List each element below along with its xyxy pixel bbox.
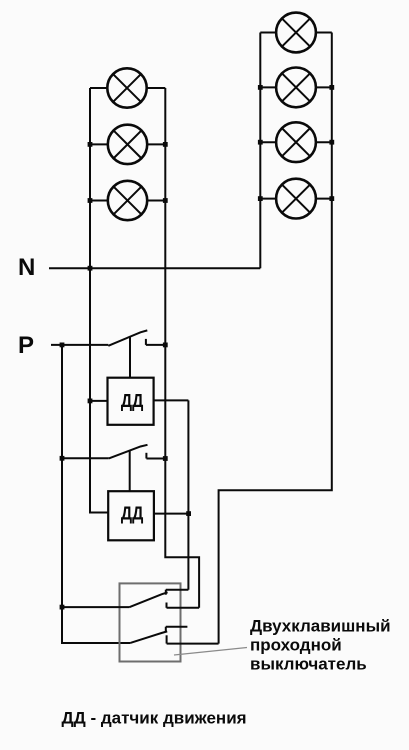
wire EL3 right stub [147,200,165,202]
wire right-group left rail (to N) [259,33,261,269]
wire EL4 left stub [260,32,276,34]
wire SA2 to sensor U2 [129,451,131,492]
junction dot right group right rail EL5 [329,85,334,90]
junction dot right group left rail EL5 [258,85,263,90]
switch SA3a feed line [62,606,129,608]
junction dot left rail at U1 [88,399,93,404]
junction dot P branch [60,343,65,348]
switch SA3b upper throw tick [165,627,167,632]
junction dot SA3a feed [60,605,65,610]
svg-text:проходной: проходной [250,636,342,655]
switch SA3b upper throw line (unused) [166,626,188,628]
switch SA2 blade [109,445,148,459]
junction dot right rail lamp EL2 [163,142,168,147]
svg-text:выключатель: выключатель [250,655,367,674]
two-gang switch SA3 enclosure [120,583,181,661]
junction dot left rail lamp EL3 [88,198,93,203]
svg-text:Р: Р [18,332,34,359]
wire sensors output rail [187,400,189,589]
lamp EL6 (right group 3) [276,122,316,162]
junction dot U2 output [186,511,191,516]
svg-text:N: N [18,254,35,281]
motion sensor U1 box [108,378,154,425]
svg-text:ДД - датчик движения: ДД - датчик движения [62,709,247,728]
wire U2 right terminal [154,513,189,515]
wire EL4 right stub [316,32,332,34]
switch SA3a upper throw line [166,589,189,591]
svg-text:Двухклавишный: Двухклавишный [250,617,391,636]
wire EL6 right stub [316,141,332,143]
wire EL6 left stub [260,141,276,143]
wire P branch rail to double switch commons [62,345,131,643]
wire EL5 left stub [260,86,276,88]
switch SA3b lower throw tick [166,635,168,643]
wire net P horizontal [51,344,108,346]
wire U1 left terminal [90,400,108,402]
lamp EL7 (right group 4) [276,179,316,219]
wire EL5 right stub [316,86,332,88]
junction dot left rail lamp EL2 [88,142,93,147]
switch SA1 contact line [146,344,165,346]
switch SA2 contact tick [145,453,147,459]
wire EL1 right stub [147,87,166,89]
annotation pointer line [174,648,247,656]
switch SA3a lower throw line [167,607,200,609]
switch SA1 contact tick [145,339,147,345]
wire EL7 left stub [260,198,276,200]
junction dot SA2 feed [60,456,65,461]
junction dot left rail at N [88,266,93,271]
switch SA3a lower throw tick [166,603,168,608]
junction dot right group right rail EL6 [329,140,334,145]
wire EL2 right stub [147,143,165,145]
junction dot right rail lamp EL3 [163,198,168,203]
wire right-group right rail (to double switch) [219,33,332,644]
wire U1 right terminal [154,399,189,401]
wire SA1 to sensor U1 [129,337,131,378]
junction dot right group left rail EL6 [258,140,263,145]
switch SA3a blade [129,592,167,607]
junction dot right group left rail EL7 [258,196,263,201]
lamp EL5 (right group 2) [276,68,316,108]
junction dot right rail at SA1 [163,343,168,348]
lamp EL3 (left group bottom) [108,181,147,220]
wire EL7 right stub [316,198,332,200]
lamp EL1 (left group top) [107,68,146,107]
switch SA2 contact line [146,458,165,460]
switch SA3a upper throw tick [165,590,167,595]
wire EL2 left stub [90,143,108,145]
motion sensor U2 box [108,491,154,540]
wire net N horizontal [49,267,260,269]
switch SA3b blade [131,631,168,642]
junction dot right group right rail EL7 [329,196,334,201]
wire EL1 left stub [90,87,108,89]
svg-text:ДД: ДД [121,390,143,411]
switch SA3b lower throw line [167,643,219,645]
wire left-group right rail (lamp return to switch outputs) [165,88,199,608]
wire left-group left rail (to N and sensors) [90,88,108,513]
junction dot right rail at SA2 [163,456,168,461]
wire EL3 left stub [90,200,108,202]
switch SA2 feed line [62,457,109,459]
lamp EL4 (right group 1) [276,13,316,53]
lamp EL2 (left group middle) [108,125,147,164]
switch SA1 blade [108,330,147,345]
svg-text:ДД: ДД [121,502,143,523]
